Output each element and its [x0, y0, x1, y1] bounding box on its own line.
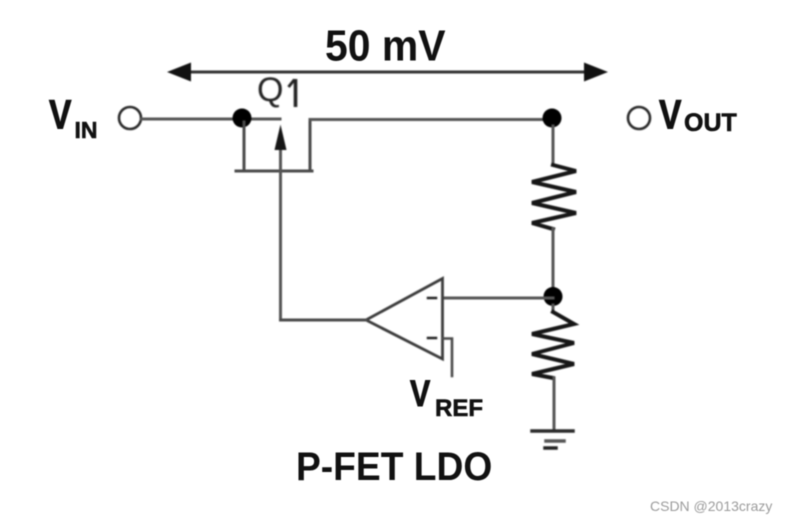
- op-amp U1: [366, 279, 443, 360]
- wire node C to resistor R2: [552, 305, 555, 312]
- node A junction dot: [233, 109, 252, 128]
- label VREF: [410, 373, 483, 422]
- wire R1 to node C: [552, 229, 555, 296]
- wire node C to op-amp input: [443, 297, 553, 300]
- svg-text:V: V: [659, 91, 681, 137]
- terminal circle VOUT: [628, 107, 650, 129]
- svg-text:REF: REF: [435, 395, 483, 422]
- svg-text:IN: IN: [75, 117, 98, 143]
- ground: [532, 431, 573, 448]
- wire VIN to node A: [141, 118, 280, 121]
- svg-text:V: V: [410, 373, 431, 415]
- terminal circle VIN: [119, 107, 141, 129]
- svg-text:50 mV: 50 mV: [325, 22, 446, 71]
- svg-text:V: V: [49, 91, 71, 137]
- resistor R1: [532, 165, 576, 229]
- transistor Q1 gate arrow: [275, 125, 287, 321]
- resistor R2: [532, 312, 574, 378]
- node C junction dot: [544, 287, 563, 306]
- dimension arrow 50mV: [167, 63, 608, 82]
- wire op-amp output feedback to gate: [281, 319, 367, 322]
- wire drain to node B: [310, 118, 552, 121]
- wire node B to resistor R1: [552, 126, 555, 165]
- op-amp minus mark: [428, 297, 436, 300]
- wire VREF input: [443, 339, 452, 377]
- label Q1: [257, 71, 296, 109]
- wire R2 to ground: [553, 378, 556, 430]
- transistor Q1 body: [236, 120, 312, 171]
- svg-text:OUT: OUT: [684, 109, 737, 137]
- label VOUT: [659, 91, 737, 137]
- svg-text:Q: Q: [257, 71, 283, 109]
- svg-text:P-FET LDO: P-FET LDO: [296, 445, 492, 490]
- op-amp plus mark: [428, 337, 436, 340]
- node B junction dot: [543, 109, 562, 128]
- svg-text:CSDN @2013crazy: CSDN @2013crazy: [650, 498, 772, 514]
- label VIN: [49, 91, 98, 143]
